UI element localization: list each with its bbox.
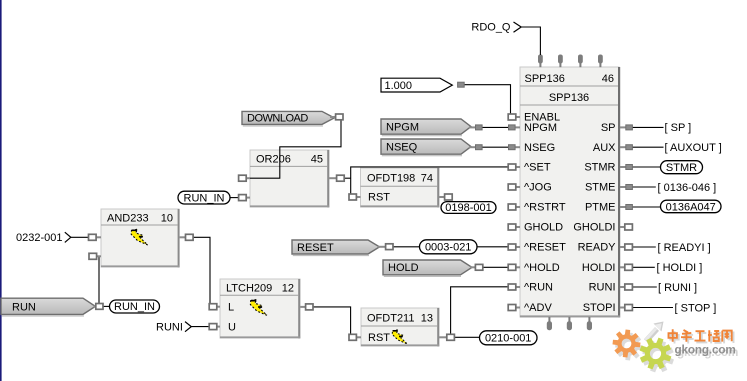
wire NPGM arrow to NPGM input xyxy=(482,126,508,128)
svg-text:[ HOLDI ]: [ HOLDI ] xyxy=(657,262,703,274)
pin ^RSTRT (hollow) xyxy=(508,204,520,210)
chevron marker 0232-001 xyxy=(65,232,71,242)
svg-text:NSEG: NSEG xyxy=(524,142,555,154)
svg-text:[ READYI ]: [ READYI ] xyxy=(658,242,711,254)
svg-text:RUN: RUN xyxy=(12,301,36,313)
svg-text:NPGM: NPGM xyxy=(386,122,419,134)
wire RUNI output to [RUNI] xyxy=(632,286,657,288)
svg-text:RUN_IN: RUN_IN xyxy=(114,301,155,313)
pin OFDT198 out (hollow) xyxy=(439,194,452,200)
watermark CJK text zhonghua gongkong wang xyxy=(669,329,734,343)
wire HOLD arrow to ^HOLD xyxy=(483,266,508,268)
svg-text:OR206: OR206 xyxy=(256,154,291,166)
wire OFDT211 output to 0210-001 oval xyxy=(454,336,479,338)
net label [READYI] xyxy=(658,242,711,254)
pin AND233 in2 (hollow) xyxy=(89,253,101,259)
pin ENABL (hollow) xyxy=(508,114,520,120)
svg-text:AND233: AND233 xyxy=(107,212,149,224)
net label [RUNI] xyxy=(658,282,697,294)
svg-text:NSEQ: NSEQ xyxy=(386,142,418,154)
svg-text:U: U xyxy=(228,321,236,333)
pin OFDT211 out (hollow) xyxy=(439,334,454,340)
block LTCH209 U12 xyxy=(220,279,300,338)
wire STOPI output to [STOP] xyxy=(632,307,673,309)
block SPP136 U46 xyxy=(520,67,620,318)
wire AUX output to [AUXOUT] xyxy=(632,146,663,148)
tag box 1.000 xyxy=(381,78,452,92)
node label RUNI xyxy=(156,322,183,334)
wire HOLDI output to [HOLDI] xyxy=(632,266,655,268)
svg-text:NPGM: NPGM xyxy=(524,122,557,134)
arrow tag NSEQ xyxy=(381,139,471,156)
svg-text:RUN_IN: RUN_IN xyxy=(184,192,225,204)
pin RUNI out (hollow) xyxy=(620,284,632,290)
svg-text:^JOG: ^JOG xyxy=(524,182,552,194)
arrow tag RESET xyxy=(292,240,380,256)
wire RUN pin to RUN_IN oval xyxy=(103,305,110,307)
net label [STOP] xyxy=(675,302,717,314)
oval 0136A047 xyxy=(661,200,722,213)
wire RESET arrow to 0003-021 oval xyxy=(393,246,420,248)
pin DOWNLOAD tag (hollow) xyxy=(330,114,343,120)
pin ^ADV (hollow) xyxy=(508,305,520,311)
net label [HOLDI] xyxy=(657,262,703,274)
net label [SP] xyxy=(665,122,692,134)
pin ^RUN (hollow) xyxy=(508,284,520,290)
svg-text:SPP136: SPP136 xyxy=(525,73,565,85)
pin NSEG (filled) xyxy=(509,145,521,150)
wire AND233 output to LTCH209 L input xyxy=(193,237,210,303)
svg-text:0232-001: 0232-001 xyxy=(16,232,63,244)
wire PTME output to 0136A047 oval xyxy=(632,206,660,208)
oval 0003-021 xyxy=(420,240,478,254)
block AND233 U10 xyxy=(101,209,180,267)
svg-text:GHOLDI: GHOLDI xyxy=(573,222,615,234)
arrow tag RUN xyxy=(1,298,95,316)
pin ^SET (hollow) xyxy=(508,164,520,170)
pin GHOLD (hollow) xyxy=(508,224,520,230)
svg-text:gkong.com: gkong.com xyxy=(675,343,736,357)
block OFDT211 U13 xyxy=(361,308,439,346)
pin HOLDI (hollow) xyxy=(620,264,632,270)
watermark orange gear xyxy=(613,330,641,358)
LTCH209 lightning icon xyxy=(250,300,267,316)
wire 0003-021 oval to ^RESET xyxy=(477,246,508,248)
pin 1.000 tag (filled) xyxy=(458,82,465,87)
pin HOLD tag (hollow) xyxy=(470,264,483,270)
window left border xyxy=(0,0,2,381)
svg-text:STMR: STMR xyxy=(584,162,615,174)
AND233 lightning icon xyxy=(131,229,148,245)
SPP136 top pin 3 xyxy=(578,55,583,68)
pin NSEQ tag (filled) xyxy=(469,145,482,150)
SPP136 top pin 4 xyxy=(598,55,603,68)
svg-text:AUX: AUX xyxy=(593,142,616,154)
oval STMR xyxy=(661,161,703,174)
svg-text:[ RUNI ]: [ RUNI ] xyxy=(658,282,697,294)
svg-text:0003-021: 0003-021 xyxy=(425,242,472,254)
svg-text:0198-001: 0198-001 xyxy=(445,202,492,214)
oval 0198-001 xyxy=(441,202,496,215)
watermark green gear xyxy=(640,338,672,370)
SPP136 bottom pin 3 xyxy=(587,317,592,330)
pin LTCH209 U (hollow) xyxy=(209,324,220,330)
pin LTCH209 L (hollow) xyxy=(209,304,220,310)
wire RUN_IN to OR206 input 2 xyxy=(230,197,238,199)
pin STMR (filled) xyxy=(620,165,632,170)
wire STMR output to STMR oval xyxy=(632,166,660,168)
svg-text:1.000: 1.000 xyxy=(385,80,413,92)
pin RUN tag (hollow) xyxy=(94,304,104,310)
wire 1.000 to ENABL xyxy=(464,85,511,114)
SPP136 bottom pin 1 xyxy=(547,317,552,330)
wire SP output to [SP] xyxy=(632,126,663,128)
watermark gkong.com text xyxy=(675,343,739,360)
svg-text:10: 10 xyxy=(161,212,173,224)
svg-text:12: 12 xyxy=(282,283,294,295)
svg-text:LTCH209: LTCH209 xyxy=(226,283,272,295)
svg-text:46: 46 xyxy=(602,73,614,85)
pin NPGM tag (filled) xyxy=(469,125,482,130)
svg-text:RESET: RESET xyxy=(297,242,334,254)
pin OFDT211 RST (hollow) xyxy=(349,334,361,340)
node label RDO_Q xyxy=(471,22,511,34)
pin SP (filled) xyxy=(620,125,632,130)
svg-text:PTME: PTME xyxy=(585,202,616,214)
pin ^HOLD (hollow) xyxy=(508,264,520,270)
pin LTCH209 out (hollow) xyxy=(300,304,313,310)
pin ^RESET (hollow) xyxy=(508,244,520,250)
wire 0232-001 to AND233 input 1 xyxy=(71,236,89,238)
wire DOWNLOAD to OR206 input 1 xyxy=(247,119,341,179)
pin AND233 out (hollow) xyxy=(180,234,194,240)
oval RUN_IN (top) xyxy=(178,191,230,204)
arrow tag DOWNLOAD xyxy=(242,111,334,126)
svg-text:^RSTRT: ^RSTRT xyxy=(524,202,566,214)
pin READY (hollow) xyxy=(620,244,632,250)
svg-text:^SET: ^SET xyxy=(524,162,551,174)
wire RUNI to LTCH209 U input xyxy=(192,326,210,328)
chevron marker RDO_Q xyxy=(514,22,522,32)
svg-text:[ 0136-046 ]: [ 0136-046 ] xyxy=(658,182,717,194)
pin OR206 out (hollow) xyxy=(329,175,344,181)
pin GHOLDI (hollow) xyxy=(620,224,632,230)
pin OFDT198 RST (hollow) xyxy=(349,194,361,200)
svg-text:HOLD: HOLD xyxy=(388,262,419,274)
svg-text:RDO_Q: RDO_Q xyxy=(471,22,511,34)
svg-text:L: L xyxy=(228,302,234,314)
svg-text:[ SP ]: [ SP ] xyxy=(665,122,692,134)
wire RDO_Q to SPP136 top pin xyxy=(521,27,540,55)
svg-text:DOWNLOAD: DOWNLOAD xyxy=(247,113,308,125)
svg-text:SP: SP xyxy=(601,122,616,134)
svg-text:HOLDI: HOLDI xyxy=(582,262,616,274)
wire NSEQ arrow to NSEG input xyxy=(482,146,508,148)
svg-text:RUNI: RUNI xyxy=(156,322,183,334)
svg-text:SPP136: SPP136 xyxy=(549,92,589,104)
pin OR206 in2 (hollow) xyxy=(239,195,250,201)
wire RUN junction up to AND233 input 2 xyxy=(97,256,99,303)
watermark orange gear shadow xyxy=(615,333,643,361)
chevron marker RUNI xyxy=(185,322,191,332)
SPP136 top pin 2 xyxy=(558,55,563,68)
svg-text:[ STOP ]: [ STOP ] xyxy=(675,302,717,314)
pin AND233 in1 (hollow) xyxy=(89,234,102,240)
svg-text:^HOLD: ^HOLD xyxy=(524,262,560,274)
pin ^JOG (hollow) xyxy=(508,184,520,190)
svg-text:RST: RST xyxy=(368,192,390,204)
svg-text:STOPI: STOPI xyxy=(583,302,616,314)
OFDT211 lightning icon xyxy=(392,330,407,344)
svg-text:13: 13 xyxy=(421,312,433,324)
pin PTME (filled) xyxy=(620,205,632,210)
svg-text:^ADV: ^ADV xyxy=(524,302,552,314)
pin STOPI (hollow) xyxy=(620,305,632,311)
svg-text:RST: RST xyxy=(368,332,390,344)
pin STME (filled) xyxy=(620,185,632,190)
pin OR206 in1 (hollow) xyxy=(239,175,250,181)
node label 0232-001 xyxy=(16,232,63,244)
arrow tag NPGM xyxy=(381,119,471,136)
svg-text:OFDT211: OFDT211 xyxy=(367,312,414,324)
net label [0136-046] xyxy=(658,182,717,194)
svg-text:0136A047: 0136A047 xyxy=(666,201,716,213)
wire LTCH209 output to OFDT211 RST xyxy=(313,307,351,334)
svg-text:RUNI: RUNI xyxy=(589,282,616,294)
pin NPGM (filled) xyxy=(509,125,521,130)
watermark arrow xyxy=(646,322,664,342)
svg-text:GHOLD: GHOLD xyxy=(524,222,563,234)
oval 0210-001 xyxy=(480,331,538,345)
wire STME output to [0136-046] xyxy=(632,186,656,188)
svg-text:OFDT198: OFDT198 xyxy=(367,173,415,185)
svg-text:^RESET: ^RESET xyxy=(524,242,566,254)
pin AUX (filled) xyxy=(620,145,632,150)
svg-text:45: 45 xyxy=(311,154,323,166)
block OFDT198 U74 xyxy=(361,168,440,207)
block OR206 U45 xyxy=(250,150,329,207)
SPP136 top pin 1 xyxy=(538,55,543,68)
svg-text:^RUN: ^RUN xyxy=(524,282,553,294)
svg-text:READY: READY xyxy=(578,242,617,254)
wire OFDT211 output up to ^RUN xyxy=(451,287,509,334)
net label [AUXOUT] xyxy=(665,142,722,154)
arrow tag HOLD xyxy=(383,260,472,276)
wire OR206 output to ^SET and OFDT198 RST xyxy=(344,167,508,194)
oval RUN_IN (bottom) xyxy=(110,300,160,313)
pin RESET tag (hollow) xyxy=(378,244,393,250)
wire READY output to [READYI] xyxy=(632,246,656,248)
svg-text:[ AUXOUT ]: [ AUXOUT ] xyxy=(665,142,722,154)
watermark green gear shadow xyxy=(642,341,674,373)
svg-text:STMR: STMR xyxy=(666,162,697,174)
svg-text:74: 74 xyxy=(421,173,433,185)
svg-text:0210-001: 0210-001 xyxy=(485,333,532,345)
svg-text:STME: STME xyxy=(585,182,616,194)
SPP136 bottom pin 2 xyxy=(567,317,572,330)
